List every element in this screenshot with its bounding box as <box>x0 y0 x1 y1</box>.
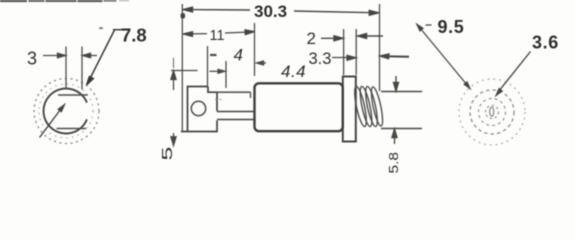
left view slot side lines (slot width 3) <box>65 47 67 90</box>
svg-text:5: 5 <box>159 147 176 161</box>
30.3 left extension line (also 5-dim line) <box>181 4 183 131</box>
left view barrel circle (open on right) <box>44 89 87 134</box>
leader 3.6 <box>496 52 530 96</box>
scan artifact: cropped text row along top edge <box>0 0 129 29</box>
4.4 left arrow <box>257 61 267 65</box>
11 right extension line <box>254 23 256 76</box>
barrel <box>255 83 343 131</box>
svg-text:4.4: 4.4 <box>281 62 306 81</box>
hidden line (upper contact, dashed) <box>217 91 251 93</box>
dimension line 11 <box>183 30 255 37</box>
svg-text:5.8: 5.8 <box>387 152 402 174</box>
leader 9.5 <box>417 24 470 88</box>
right view ring 6.5 <box>486 106 499 119</box>
svg-text:3: 3 <box>27 49 37 69</box>
dimension 2 arrows <box>321 34 383 41</box>
switch block <box>181 87 217 132</box>
dimension line 30.3 <box>181 7 378 18</box>
block hole <box>191 101 205 115</box>
5.8 dimension <box>381 76 422 144</box>
thread spring <box>352 86 385 128</box>
2 dimension extension lines <box>343 29 345 75</box>
right view ring 22 <box>470 90 514 134</box>
left view middle dotted circle <box>39 84 93 138</box>
flange <box>343 77 356 142</box>
5 dimension <box>171 58 198 146</box>
right view ring 13.5 <box>479 99 506 126</box>
dimension 3 arrows <box>43 53 97 58</box>
right view outer dotted circle <box>459 79 525 145</box>
terminal pin (center contact) <box>217 112 254 120</box>
leader 7.8 <box>87 30 122 85</box>
4 dimension marks <box>208 46 227 88</box>
leader into left view center <box>40 105 65 138</box>
right view center pin <box>490 107 494 116</box>
svg-text:9.5: 9.5 <box>438 17 465 37</box>
svg-text:4: 4 <box>234 46 243 65</box>
3.3 leader <box>332 54 409 61</box>
left view slot bottom chord <box>57 128 87 130</box>
left view outer dashed circle (7.8 dia) <box>34 79 99 144</box>
left view slot top chord <box>58 94 88 96</box>
svg-text:2: 2 <box>307 29 316 48</box>
svg-text:7.8: 7.8 <box>121 25 147 46</box>
30.3 right extension line <box>379 4 381 91</box>
svg-text:3.6: 3.6 <box>532 33 559 53</box>
svg-text:11: 11 <box>210 28 225 44</box>
svg-text:3.3: 3.3 <box>309 50 332 68</box>
svg-text:30.3: 30.3 <box>254 2 287 21</box>
